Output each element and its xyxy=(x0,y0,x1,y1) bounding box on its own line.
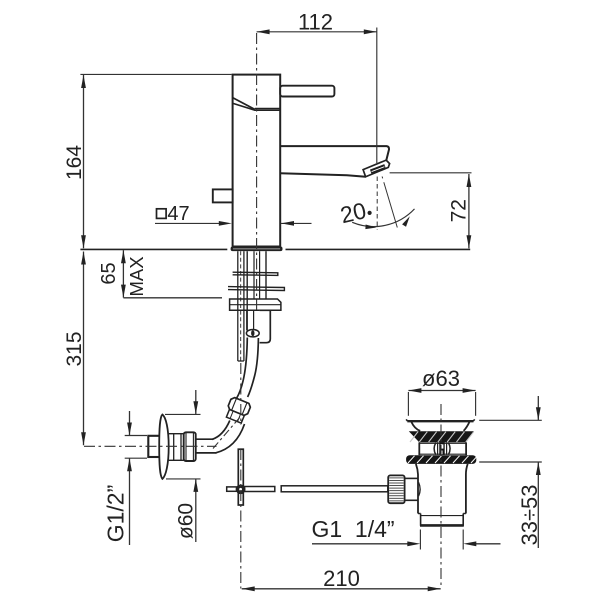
svg-text:210: 210 xyxy=(323,566,360,591)
svg-text:MAX: MAX xyxy=(126,256,147,296)
svg-text:315: 315 xyxy=(63,331,86,366)
svg-text:47: 47 xyxy=(167,203,189,225)
svg-text:G1/2”: G1/2” xyxy=(103,485,129,543)
svg-text:65: 65 xyxy=(98,262,120,284)
svg-text:G1 1/4”: G1 1/4” xyxy=(311,516,394,542)
svg-text:33÷53: 33÷53 xyxy=(517,484,542,545)
svg-text:20: 20 xyxy=(338,197,369,228)
svg-text:72: 72 xyxy=(448,199,471,222)
svg-text:ø60: ø60 xyxy=(175,503,198,539)
svg-text:ø63: ø63 xyxy=(422,366,460,391)
svg-text:164: 164 xyxy=(63,145,86,180)
svg-text:112: 112 xyxy=(298,10,333,35)
